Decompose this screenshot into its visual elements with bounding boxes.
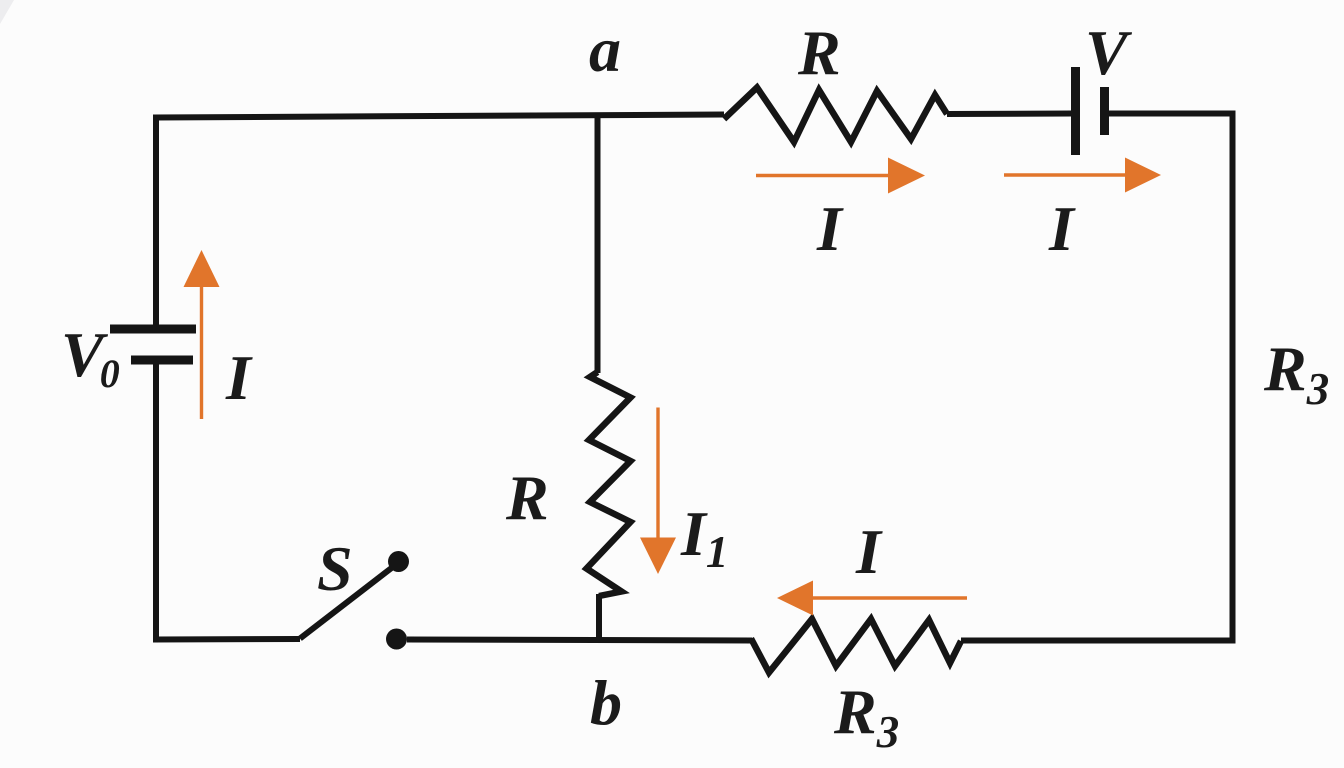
resistor R (middle vertical) <box>587 372 631 596</box>
current arrow I1 head (middle, downward) <box>640 538 676 575</box>
svg-text:I: I <box>225 342 253 413</box>
battery V0 long plate <box>110 325 196 334</box>
wire: top segment between resistor R and battery V <box>947 111 1072 118</box>
wire: middle branch from node a down to resistor R <box>595 114 601 373</box>
resistor R3 (bottom horizontal) <box>751 619 961 673</box>
svg-text:R: R <box>505 462 549 533</box>
svg-text:I: I <box>1048 193 1076 264</box>
switch S lower contact dot <box>386 629 407 650</box>
current arrow I head (top middle, rightward) <box>888 158 925 194</box>
svg-text:V: V <box>1085 17 1133 88</box>
wire: bottom middle from switch dot to node b to resistor R3 <box>407 640 752 641</box>
current arrow I shaft (top middle, rightward) <box>756 174 891 177</box>
svg-text:I: I <box>855 516 883 587</box>
switch S lever <box>300 568 392 639</box>
current arrow I head (left, upward) <box>184 250 220 287</box>
resistor R (top horizontal) <box>724 88 947 143</box>
wire: middle branch below resistor R to bottom rail <box>596 594 602 642</box>
page corner shadow top-left <box>0 0 14 24</box>
battery V short plate <box>1100 87 1109 135</box>
svg-text:S: S <box>317 533 353 604</box>
svg-text:b: b <box>590 667 622 738</box>
battery V0 short plate <box>131 356 193 365</box>
current arrow I head (top right, rightward) <box>1125 158 1161 193</box>
svg-text:R: R <box>797 17 841 88</box>
svg-text:a: a <box>589 14 621 85</box>
wire: left rail bottom (battery V0 to bottom-left corner to switch) <box>156 364 300 640</box>
current arrow I shaft (top right, rightward) <box>1004 173 1128 176</box>
switch S upper contact dot <box>388 551 409 572</box>
battery V long plate <box>1071 67 1080 155</box>
wire: battery V to top-right corner, right rail, bottom-right rail <box>961 114 1233 641</box>
current arrow I head (bottom, leftward) <box>777 581 813 616</box>
current arrow I1 shaft (middle, downward) <box>656 408 659 540</box>
svg-text:I: I <box>816 193 844 264</box>
current arrow I shaft (left, upward) <box>200 284 203 419</box>
current arrow I shaft (bottom, leftward) <box>812 596 967 599</box>
wire: top rail from node a left to corner and down left rail to battery V0 <box>156 115 724 326</box>
